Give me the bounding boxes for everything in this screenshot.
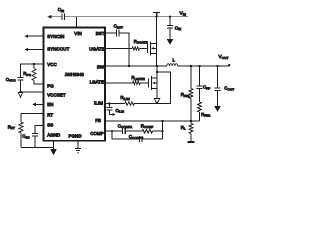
wire CCOMP1 to RCOMP <box>125 130 142 132</box>
wire FB line <box>105 120 199 122</box>
capacitor CBST <box>116 30 119 37</box>
svg-text:VIN: VIN <box>180 10 186 16</box>
ground arrow under COUT <box>215 106 220 110</box>
svg-text:SYNCIN: SYNCIN <box>47 34 64 39</box>
inductor L <box>167 64 178 66</box>
svg-text:SW: SW <box>97 65 105 70</box>
wire SYNCOUT stub <box>28 49 44 51</box>
node input arrow left <box>48 15 52 19</box>
svg-text:LGATE: LGATE <box>90 79 105 84</box>
svg-text:JWH8346: JWH8346 <box>65 72 85 77</box>
wire RILIM sense <box>134 72 170 104</box>
wire RT net <box>21 114 44 123</box>
wire COMP stub <box>105 130 122 132</box>
wire Q1 drain to rail <box>156 17 158 44</box>
capacitor CVCC <box>18 77 24 92</box>
svg-text:FB: FB <box>95 118 101 123</box>
svg-text:AGND: AGND <box>47 132 60 137</box>
wire gate Q2 <box>141 82 149 84</box>
node SW junction dots <box>128 65 130 67</box>
node VCC junction <box>33 63 35 65</box>
wire VCCSET to CVCC node <box>21 91 44 93</box>
svg-text:CILM: CILM <box>116 108 125 114</box>
node COMP junction <box>111 130 113 132</box>
svg-text:PGND: PGND <box>69 134 82 139</box>
wire BST stub <box>105 32 116 34</box>
node SYNCIN arrow <box>24 34 28 38</box>
resistor RFB2 <box>198 102 202 112</box>
node ILIM junction <box>108 102 110 104</box>
svg-text:CBST: CBST <box>114 24 123 30</box>
svg-text:RT: RT <box>47 112 53 117</box>
resistor RCOMP <box>142 129 153 133</box>
svg-text:VIN: VIN <box>74 31 82 36</box>
capacitor COUT column <box>215 66 221 107</box>
svg-text:CIN: CIN <box>175 25 181 31</box>
node FB junction divider <box>190 120 192 122</box>
svg-text:CIN: CIN <box>58 7 64 13</box>
svg-text:CCOMP1: CCOMP1 <box>118 123 133 129</box>
resistor RFB1 column <box>190 66 192 89</box>
svg-text:RL: RL <box>181 125 186 131</box>
svg-text:RRT: RRT <box>8 124 15 130</box>
ground arrow under CIN2 <box>168 40 173 44</box>
capacitor CILM <box>107 104 113 115</box>
wire UGATE stub <box>105 48 132 50</box>
resistor RLGATE <box>133 81 141 84</box>
capacitor CIN (series input) <box>62 13 65 20</box>
transistor Q2 low-side MOSFET <box>149 76 158 90</box>
svg-text:COMP: COMP <box>90 131 104 136</box>
wire Q2 drain to SW <box>156 66 158 78</box>
svg-text:CVCC: CVCC <box>6 77 17 83</box>
wire VCC net <box>21 64 44 77</box>
node SYNCOUT arrow <box>24 48 28 52</box>
svg-text:L: L <box>173 58 176 63</box>
capacitor CSS <box>32 133 38 147</box>
svg-text:EN: EN <box>47 102 53 107</box>
wire RCOMP right <box>153 130 163 132</box>
svg-text:RFB2: RFB2 <box>201 112 210 118</box>
wire BST to SW <box>119 33 129 66</box>
ground arrow Q2 source <box>154 99 159 104</box>
svg-text:SYNCOUT: SYNCOUT <box>47 47 69 52</box>
wire ILIM stub <box>105 103 125 105</box>
wire LGATE stub <box>105 82 132 84</box>
resistor RUGATE <box>132 47 140 50</box>
svg-text:RLGATE: RLGATE <box>131 75 144 81</box>
wire SW line <box>105 65 229 67</box>
node RILIM tap junction <box>156 71 158 73</box>
wire Q1 source to SW <box>156 54 158 67</box>
IC U1 JWH8346 body <box>44 28 106 141</box>
svg-text:RCOMP: RCOMP <box>141 123 154 129</box>
wire PGND stub <box>77 141 79 148</box>
capacitor CCOMP1 <box>123 128 126 134</box>
wire top rail Vin <box>51 16 188 18</box>
wire Q2 source down <box>156 88 158 98</box>
resistor RL load <box>190 121 192 124</box>
ground PGND bars <box>75 147 81 149</box>
node EN arrow <box>32 103 36 107</box>
svg-text:VOUT: VOUT <box>219 54 229 60</box>
svg-text:RUGATE: RUGATE <box>134 39 148 45</box>
transistor Q1 high-side MOSFET <box>148 42 157 56</box>
svg-text:VCCSET: VCCSET <box>47 92 66 97</box>
node junction CIN2 <box>169 16 171 18</box>
wire AGND ground rail <box>21 141 54 150</box>
ground arrow under CVCC <box>18 93 22 98</box>
resistor RRT <box>19 122 23 133</box>
svg-text:RFB1: RFB1 <box>181 92 190 98</box>
capacitor CFF column <box>197 66 203 102</box>
capacitor CCOMP2 <box>139 136 142 142</box>
ground bar under RL <box>188 141 195 143</box>
node FB junction comp <box>161 120 163 122</box>
wire SS net <box>35 126 44 134</box>
ground arrow AGND <box>51 150 56 155</box>
svg-text:VCC: VCC <box>47 62 57 67</box>
svg-text:COUT: COUT <box>224 86 234 92</box>
svg-text:RILIM: RILIM <box>120 95 130 101</box>
wire EN stub <box>36 103 44 105</box>
svg-text:RPG: RPG <box>23 71 31 77</box>
svg-text:BST: BST <box>96 31 105 36</box>
wire comp vertical to FB <box>162 121 164 139</box>
wire CCOMP2 branch <box>112 131 163 139</box>
svg-text:CFF: CFF <box>203 85 210 91</box>
svg-text:UGATE: UGATE <box>89 46 104 51</box>
resistor RILIM <box>125 102 134 105</box>
svg-text:ILIM: ILIM <box>94 100 103 105</box>
node CVCC junction <box>19 91 21 93</box>
resistor RPG <box>33 64 35 69</box>
capacitor CIN2 (input bypass) <box>167 17 173 40</box>
wire RPG to PG pin <box>34 81 44 84</box>
svg-text:CSS: CSS <box>22 134 29 140</box>
wire VIN pin stub <box>76 17 78 28</box>
node comp right junction <box>161 130 163 132</box>
wire gate Q1 <box>140 48 148 50</box>
svg-text:CCOMP2: CCOMP2 <box>129 134 144 140</box>
svg-text:PG: PG <box>47 83 54 88</box>
node CILM arrow <box>112 113 115 116</box>
svg-text:SS: SS <box>47 122 53 127</box>
node Vin T-terminal <box>153 12 160 16</box>
wire SYNCIN stub <box>28 35 44 37</box>
